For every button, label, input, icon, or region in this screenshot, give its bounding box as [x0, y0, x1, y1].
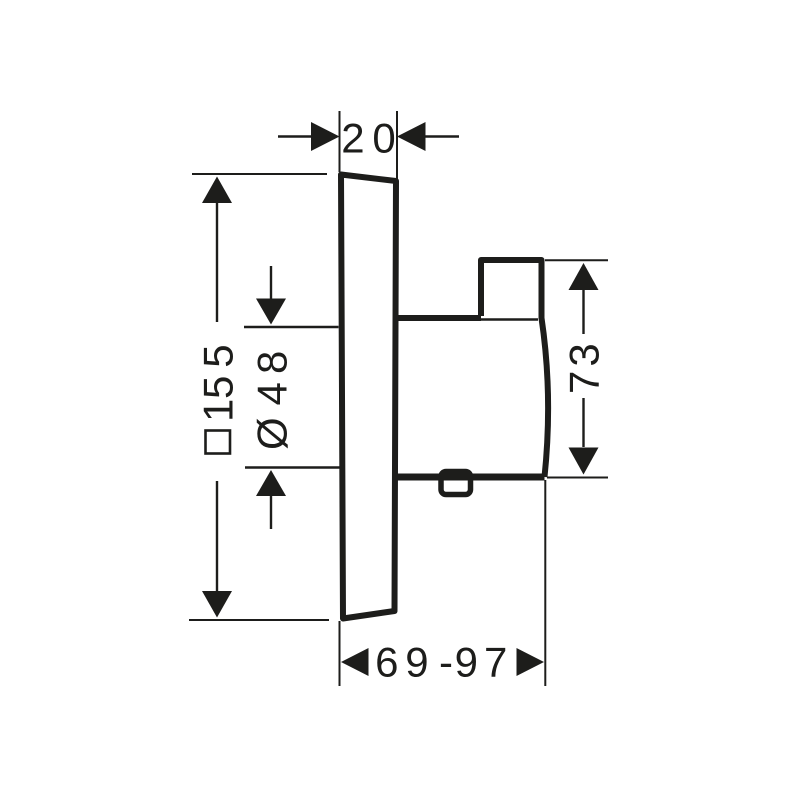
dim 73: bottom extension line [547, 477, 608, 479]
svg-text:0: 0 [372, 115, 395, 162]
dim 73: top extension line [545, 259, 608, 261]
label &#216;48 (rotated, reads bottom-up) [249, 351, 296, 450]
dim 20: right arrowhead [397, 122, 426, 151]
dim 48: lower arrow stub [270, 496, 272, 529]
escutcheon plate (side view, slight perspective) [341, 175, 396, 619]
dim 155: bottom extension line [189, 619, 329, 621]
valve body top edge (thick, from plate to knob) [394, 315, 481, 321]
dim 155: lower dimension line [216, 481, 218, 592]
svg-text:9: 9 [455, 639, 478, 686]
dim 155: upper arrowhead [202, 177, 232, 204]
dim 69-97: left extension line [339, 621, 341, 686]
dim 48: upper boundary line [244, 326, 339, 328]
dim 155: upper dimension line [216, 203, 218, 322]
dim 155: top extension line [192, 173, 327, 175]
dim 69-97: right arrowhead [517, 648, 545, 676]
dim 155: lower arrowhead [202, 591, 232, 618]
dim 69-97: right extension line [544, 480, 546, 686]
label 155 (rotated, reads bottom-up) [195, 344, 242, 422]
svg-text:5: 5 [195, 344, 242, 367]
svg-text:3: 3 [561, 343, 608, 366]
dim 20: right leader line [424, 135, 459, 137]
svg-text:1: 1 [195, 399, 242, 422]
svg-text:6: 6 [375, 639, 398, 686]
svg-text:8: 8 [249, 351, 296, 374]
dim 48: lower arrowhead (up) [256, 470, 286, 496]
dim 48: upper arrowhead (down) [256, 299, 286, 325]
dim 48: upper arrow stub [270, 266, 272, 301]
valve body right edge (slightly bulged) [542, 318, 549, 477]
dim 20: left arrowhead [311, 122, 340, 151]
dim 20: right extension line [396, 111, 398, 179]
svg-text:7: 7 [561, 371, 608, 394]
valve body bottom edge (thick) [394, 474, 545, 481]
label 73 (rotated, reads bottom-up) [561, 343, 608, 394]
label 20 [341, 115, 396, 162]
dim 73: lower dimension line [582, 398, 584, 447]
handle knob [481, 260, 542, 319]
dim 20: left extension line [339, 111, 341, 172]
svg-text:5: 5 [195, 376, 242, 399]
dim 69-97: left arrowhead [341, 648, 369, 676]
svg-text:4: 4 [249, 382, 296, 405]
svg-text:2: 2 [341, 115, 364, 162]
label 69-97 [375, 639, 507, 686]
dim 73: upper arrowhead (up) [569, 263, 599, 290]
dim 73: lower arrowhead (down) [569, 448, 599, 475]
svg-text:-: - [439, 639, 453, 686]
svg-text:7: 7 [484, 639, 507, 686]
svg-text:9: 9 [405, 639, 428, 686]
dim 73: upper dimension line [582, 290, 584, 334]
valve body top edge behind knob (thin) [481, 318, 538, 320]
stop-ring tab below body [441, 472, 471, 495]
svg-text:Ø: Ø [249, 417, 296, 450]
dim 48: lower boundary line [245, 466, 340, 468]
dim 155: square symbol of label [206, 431, 231, 454]
dim 20: left leader line [278, 135, 313, 137]
